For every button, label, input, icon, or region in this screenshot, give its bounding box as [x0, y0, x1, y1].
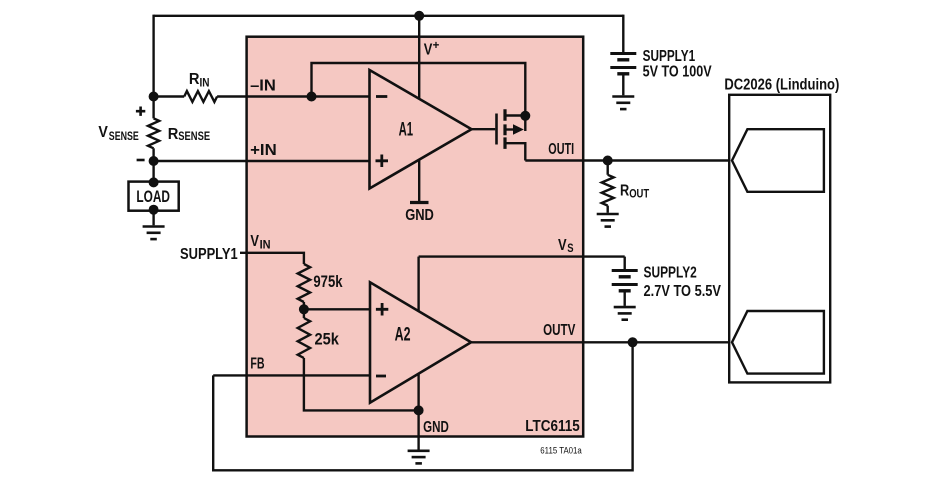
svg-text:GND: GND: [405, 207, 434, 224]
wire +IN input line: [154, 160, 370, 162]
label - polarity of VSENSE: [137, 159, 145, 162]
ground below A2 GND: [408, 449, 430, 452]
wire VS line: [419, 255, 625, 257]
svg-text:A2: A2: [395, 324, 411, 345]
connector pin 1 (OUTI input): [732, 129, 824, 192]
svg-text:6115 TA01a: 6115 TA01a: [540, 446, 582, 456]
resistor ROUT: [602, 175, 614, 206]
wire divider to A2 + input: [304, 308, 370, 310]
wire ROUT top lead: [607, 161, 609, 175]
resistor RSENSE: [148, 118, 159, 148]
svg-text:SENSE: SENSE: [178, 131, 210, 143]
transistor M1 drain lead: [505, 114, 525, 116]
ground below SUPPLY2: [614, 306, 636, 309]
svg-text:R: R: [168, 126, 179, 143]
transistor M1 source lead: [505, 143, 525, 160]
svg-text:FB: FB: [250, 356, 264, 373]
transistor M1 gate bar: [495, 114, 498, 145]
battery SUPPLY1: [610, 52, 636, 55]
wire FB line: [213, 374, 370, 376]
svg-text:SUPPLY2: SUPPLY2: [644, 265, 697, 282]
wire A2 VS pin: [417, 257, 419, 311]
ground below ROUT: [597, 213, 619, 216]
svg-text:V: V: [424, 42, 433, 59]
wire OUTV line: [471, 341, 732, 343]
ground below LOAD: [143, 225, 165, 228]
wire left rail upper segment: [152, 15, 154, 119]
wire left rail lower segment: [152, 148, 154, 183]
node MOSFET drain / feedback: [520, 111, 530, 121]
node A2 GND junction: [414, 405, 424, 415]
ground below SUPPLY1: [612, 95, 634, 98]
wire A1 output to MOSFET gate: [472, 128, 496, 130]
wire outer feedback loop: [213, 342, 632, 470]
wire right rail down to SUPPLY1 battery: [622, 15, 624, 54]
svg-text:5V TO 100V: 5V TO 100V: [643, 63, 712, 80]
svg-text:V: V: [558, 237, 567, 254]
label A1 minus input: [376, 95, 387, 98]
wire LOAD to ground: [152, 210, 154, 226]
wire A2 GND pin: [417, 374, 419, 450]
svg-text:–IN: –IN: [250, 78, 276, 95]
svg-text:OUTI: OUTI: [548, 141, 574, 158]
wire 975k to divider node: [303, 302, 305, 309]
svg-text:LOAD: LOAD: [136, 187, 170, 206]
svg-text:25k: 25k: [315, 330, 340, 349]
node ROUT junction: [603, 156, 613, 166]
svg-text:GND: GND: [423, 419, 449, 436]
transistor M1 body arrow: [505, 128, 514, 130]
node LOAD bottom: [149, 205, 159, 215]
svg-text:OUT: OUT: [629, 189, 649, 201]
IC block LTC6115 (pink body): [247, 37, 584, 437]
A1 GND terminal bar: [410, 201, 429, 204]
svg-text:LTC6115: LTC6115: [525, 418, 579, 435]
svg-text:SUPPLY1: SUPPLY1: [180, 246, 238, 263]
svg-text:A1: A1: [399, 119, 414, 140]
svg-text:SUPPLY1: SUPPLY1: [643, 48, 696, 65]
re-draw V+ pin wire inside block: [418, 37, 420, 100]
svg-text:975k: 975k: [313, 272, 343, 291]
resistor RIN: [184, 91, 217, 102]
wire OUTI line: [525, 159, 732, 161]
node divider junction: [299, 304, 309, 314]
svg-text:2.7V TO 5.5V: 2.7V TO 5.5V: [644, 283, 722, 300]
wire top supply rail: [154, 15, 624, 17]
svg-text:+IN: +IN: [250, 142, 277, 159]
svg-text:SENSE: SENSE: [109, 131, 139, 143]
svg-text:V: V: [98, 124, 108, 141]
load box: [129, 182, 179, 211]
svg-text:DC2026 (Linduino): DC2026 (Linduino): [724, 77, 839, 94]
wire A1 GND pin: [418, 159, 420, 202]
op-amp A1: [370, 70, 472, 189]
wire feedback from -IN node to MOSFET drain: [312, 63, 526, 131]
wire VIN supply line: [240, 253, 304, 264]
op-amp A2: [370, 282, 471, 402]
label A2 minus input: [376, 375, 386, 378]
svg-text:IN: IN: [200, 77, 210, 89]
svg-text:S: S: [567, 243, 574, 255]
node -IN feedback junction: [307, 92, 317, 102]
label A1 plus input: [376, 155, 389, 168]
label A2 plus input: [376, 303, 388, 316]
node LOAD top: [149, 177, 159, 187]
svg-text:R: R: [620, 183, 630, 200]
node RIN/left rail junction: [149, 92, 159, 102]
DC2026 Linduino box: [729, 95, 830, 383]
wire SUPPLY1 battery to ground: [622, 74, 624, 96]
wire 25k bottom to A2 GND node: [304, 309, 419, 410]
transistor M1 channel segments: [503, 109, 506, 149]
connector pin 2 (OUTV input): [732, 311, 824, 374]
wire V+ pin from top rail to A1: [418, 16, 420, 100]
svg-text:+: +: [433, 40, 440, 52]
svg-text:OUTV: OUTV: [543, 322, 576, 339]
svg-text:R: R: [189, 71, 200, 88]
node +IN junction: [149, 156, 159, 166]
resistor 25k: [298, 318, 310, 358]
svg-text:V: V: [250, 233, 259, 250]
node V+ junction on top rail: [414, 11, 424, 21]
resistor 975k: [298, 264, 310, 302]
wire SUPPLY2 battery to ground: [624, 291, 626, 306]
wire -IN input line: [154, 95, 185, 97]
wire ROUT bottom lead: [607, 206, 609, 213]
battery SUPPLY2: [624, 257, 626, 271]
svg-text:IN: IN: [260, 239, 271, 251]
label + polarity of VSENSE: [136, 107, 145, 116]
node OUTV feedback junction: [628, 337, 638, 347]
